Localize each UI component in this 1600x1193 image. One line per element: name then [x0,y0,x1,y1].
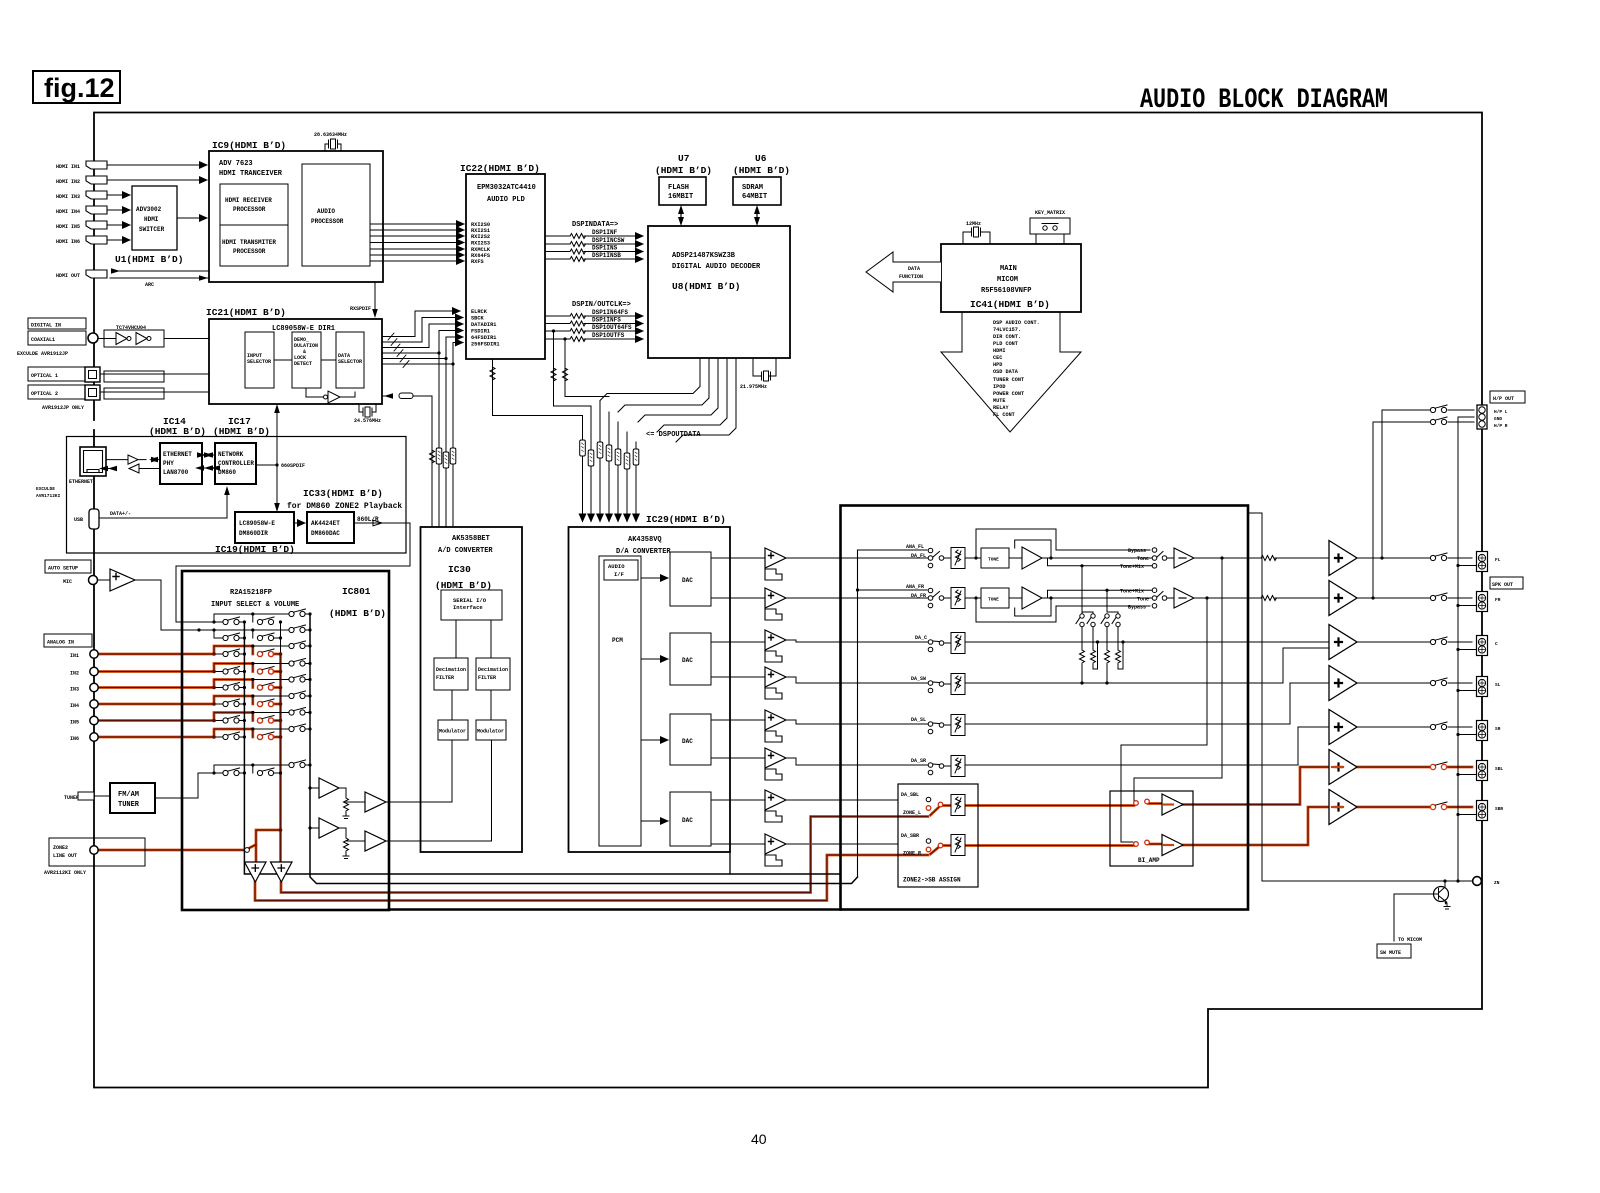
svg-text:DAC: DAC [682,738,693,745]
DAC 4 [670,792,711,846]
matrix junction dots [212,612,311,831]
DIGITAL IN label [28,318,86,329]
main amplifier section box [841,506,1249,910]
svg-text:FR: FR [1495,597,1501,603]
svg-text:DA_SBL: DA_SBL [901,792,919,798]
post amp A3 and step [765,630,786,662]
svg-text:TONE: TONE [988,597,999,603]
svg-text:FL: FL [1495,557,1501,563]
svg-text:Tone: Tone [1137,597,1149,603]
wire HDMI IN3 to U1 [107,194,130,196]
ZN terminal [1473,877,1500,886]
wire DSPINDATA group IC22 to U8 [545,221,643,262]
svg-text:AUDIO PLD: AUDIO PLD [487,196,525,204]
bead B4 [606,445,612,461]
svg-text:AK4424ET: AK4424ET [311,520,340,527]
svg-text:DM860: DM860 [218,469,236,476]
svg-text:TUNER CONT: TUNER CONT [993,377,1024,383]
svg-text:TO MICOM: TO MICOM [1398,937,1422,943]
red dash in BI_AMP tri2 [1164,844,1173,846]
svg-text:HDMI IN6: HDMI IN6 [56,239,80,245]
svg-text:HDMI TRANCEIVER: HDMI TRANCEIVER [219,170,283,178]
svg-text:DSPINDATA=>: DSPINDATA=> [572,221,618,229]
wire HDMI OUT arc loop [110,271,209,278]
svg-text:DSP1INS: DSP1INS [592,245,618,252]
ethernet buffers [99,455,160,473]
svg-text:DA_SW: DA_SW [911,676,926,682]
svg-text:64FSDIR1: 64FSDIR1 [471,335,496,341]
HDMI IN3 connector [56,191,107,200]
svg-text:H/P R: H/P R [1494,423,1508,429]
wire SR to connector [1357,726,1472,728]
svg-text:GND: GND [1494,416,1502,422]
switch FR out [1430,593,1447,601]
HDMI IN2 connector [56,176,107,185]
wire DSP1OUT64FS drop [551,329,591,406]
svg-text:AUDIO: AUDIO [608,563,625,570]
bead B2 [588,450,594,466]
crystal X1 28.63634MHz [314,132,347,151]
FL bypass loop [976,529,1150,558]
svg-text:R5F56108VNFP: R5F56108VNFP [981,287,1031,295]
row DA_SL [841,683,1330,734]
svg-text:COAXIAL1: COAXIAL1 [31,337,55,343]
svg-text:ZONE2->SB ASSIGN: ZONE2->SB ASSIGN [903,877,961,884]
H/P OUT label [1490,391,1525,403]
wire HDMI IN2 to IC9 [107,179,207,181]
svg-text:AUTO SETUP: AUTO SETUP [48,566,78,572]
svg-text:OSD DATA: OSD DATA [993,369,1019,375]
svg-text:SW MUTE: SW MUTE [1380,950,1401,956]
svg-text:DSP1INCSW: DSP1INCSW [592,237,625,244]
power amp SR [1329,710,1357,745]
bead F3 [450,448,456,464]
svg-text:HDMI IN1: HDMI IN1 [56,164,80,170]
wire U1 to IC9 [177,217,207,219]
red dash in SBL amp [1332,766,1343,768]
svg-text:ADV 7623: ADV 7623 [219,160,253,168]
svg-text:U8(HDMI B’D): U8(HDMI B’D) [672,281,740,292]
svg-text:OPTICAL 2: OPTICAL 2 [31,391,58,397]
svg-text:BI_AMP: BI_AMP [1138,857,1160,864]
post amp A1 and step [765,548,786,580]
svg-text:Modulator: Modulator [439,729,466,735]
wire IC22 bottom resistor to bus [490,359,583,416]
mix junction dots [1080,640,1124,684]
wire controller 860SPDIF right and up to IC21 [256,404,305,512]
col3 bus to ANA line [310,614,858,884]
svg-text:(HDMI B’D): (HDMI B’D) [213,426,270,437]
H/P switches [1430,405,1447,413]
svg-text:CEC: CEC [993,355,1002,361]
svg-text:MICOM: MICOM [997,276,1018,284]
svg-text:DAC: DAC [682,657,693,664]
svg-text:Tone: Tone [1137,556,1149,562]
svg-text:HDMI TRANSMITER: HDMI TRANSMITER [222,239,276,246]
connector SBL [1477,761,1504,781]
svg-text:IN5: IN5 [70,720,79,726]
bead B5 [615,449,621,465]
TUNER connector [64,792,94,801]
svg-text:IN1: IN1 [70,653,79,659]
svg-text:SERIAL I/O: SERIAL I/O [453,597,487,604]
svg-text:IC29(HDMI B’D): IC29(HDMI B’D) [646,514,726,525]
svg-text:SR: SR [1495,726,1501,732]
svg-text:256FSDIR1: 256FSDIR1 [471,342,500,348]
svg-text:Bypass: Bypass [1128,605,1146,611]
ethernet RJ45 connector [69,447,106,485]
H/P connector [1477,405,1508,429]
svg-text:28.63634MHz: 28.63634MHz [314,132,347,138]
DATA FUNCTION left arrow [866,252,941,292]
AUTO SETUP label [45,560,91,573]
svg-text:POWER CONT: POWER CONT [993,391,1024,397]
attenuator FR [951,588,965,609]
svg-text:IC21(HDMI B’D): IC21(HDMI B’D) [206,307,286,318]
post amp A5 and step [765,710,786,742]
FL mode selector [1048,548,1195,570]
svg-text:Decimation: Decimation [436,667,466,673]
wire IC801 buffer2 to modulator2 [386,740,492,841]
svg-text:DSP1INF: DSP1INF [592,229,618,236]
svg-text:DA_C: DA_C [915,635,927,641]
svg-text:DATA: DATA [908,266,920,272]
post amp A4 and step [765,667,786,699]
svg-text:PROCESSOR: PROCESSOR [233,248,266,255]
svg-text:ETHERNET: ETHERNET [69,479,93,485]
svg-text:ADV3002: ADV3002 [136,206,162,213]
svg-text:RXI2S3: RXI2S3 [471,241,490,247]
svg-text:AVR1712KI: AVR1712KI [36,493,61,499]
switch C out [1430,637,1447,645]
bead F1 [436,448,442,464]
svg-text:LINE OUT: LINE OUT [53,853,77,859]
wire 860L/R feed row1 [176,614,310,622]
SPK OUT label [1490,577,1523,589]
HDMI IN1 connector [56,161,107,170]
attenuator C [951,633,965,654]
svg-text:FILTER: FILTER [478,675,496,681]
power amp FL [1329,541,1357,576]
svg-text:SELECTOR: SELECTOR [338,359,362,365]
svg-text:DATA+/-: DATA+/- [110,511,131,517]
svg-text:TUNER: TUNER [64,795,79,801]
svg-text:SELECTOR: SELECTOR [247,359,271,365]
svg-text:Bypass: Bypass [1128,548,1146,554]
row DA_C [841,635,1330,652]
wire SL to connector [1357,682,1472,684]
attenuator SBL zone [951,795,965,816]
LC89058W-E DM860DIR [235,512,294,543]
wire DSP1OUTFS drop [563,337,610,396]
ZONE2 SB ASSIGN block [898,784,978,887]
svg-text:SPK OUT: SPK OUT [1492,582,1513,588]
svg-text:EXCULDE AVR1912JP: EXCULDE AVR1912JP [17,351,68,357]
svg-text:HDMI IN2: HDMI IN2 [56,179,80,185]
ANA bus vertical [858,550,928,877]
IN4 jack [70,700,98,709]
svg-text:Decimation: Decimation [478,667,508,673]
svg-text:ARC: ARC [145,282,154,288]
svg-text:DIGITAL IN: DIGITAL IN [31,323,61,329]
bus hatch marks [388,333,409,368]
svg-text:HDMI RECEIVER: HDMI RECEIVER [225,197,272,204]
OPTICAL 2 input [28,385,100,411]
DAC 1 [670,552,711,606]
svg-text:OPTICAL 1: OPTICAL 1 [31,373,58,379]
svg-text:TUNER: TUNER [118,801,140,809]
wire PHY to controller arrows [202,455,215,468]
svg-text:A/D CONVERTER: A/D CONVERTER [438,547,493,555]
wire FR to power amp with resistor [1194,597,1329,599]
fig.12 title box [33,71,120,103]
svg-text:DSP1OUT64FS: DSP1OUT64FS [592,324,632,331]
svg-text:HDMI OUT: HDMI OUT [56,273,80,279]
svg-text:Tone+Mix: Tone+Mix [1120,589,1144,595]
HDMI IN6 connector [56,236,107,245]
crystal X2 24.576MHz [354,404,381,424]
wire optical1 to IC21 [100,371,209,382]
svg-text:NETWORK: NETWORK [218,451,244,458]
svg-text:IN6: IN6 [70,736,79,742]
svg-text:D/A CONVERTER: D/A CONVERTER [616,548,671,556]
svg-text:HDMI: HDMI [993,348,1005,354]
svg-text:HDMI: HDMI [144,216,159,223]
IC22 AUDIO PLD [460,163,545,359]
svg-text:DSP1OUTFS: DSP1OUTFS [592,332,625,339]
post amp A7 and step [765,790,786,822]
svg-text:ZONE_R: ZONE_R [903,851,921,857]
wire H/P L tap [1382,410,1474,558]
wire FR tap to BI_AMP [1121,598,1207,842]
wire PCM to DACs [641,578,668,821]
wire DSPIN/OUTCLK group IC22 to U8 [545,301,643,342]
U6 SDRAM [733,153,790,205]
row FR input select [841,584,952,608]
transistor Q1 mute [1394,879,1450,941]
svg-text:IPOD: IPOD [993,384,1005,390]
switch SL out [1430,678,1447,686]
AK4424ET DM860DAC [307,512,354,543]
wire FL to power amp with resistor [1194,557,1329,559]
svg-text:C: C [1495,641,1498,647]
svg-text:HDMI IN5: HDMI IN5 [56,224,80,230]
wire bus IC21 to IC22 pins [382,311,463,368]
svg-text:U6: U6 [755,153,767,164]
svg-text:PROCESSOR: PROCESSOR [233,206,266,213]
IC30 A/D converter [421,527,523,852]
svg-text:DSP1IN64FS: DSP1IN64FS [592,309,628,316]
svg-text:IC9(HDMI B’D): IC9(HDMI B’D) [212,140,286,151]
wire IC801 buffer1 to modulator1 [386,740,452,802]
FR tone feedback loop [1015,598,1051,616]
wire 860L/R output [176,516,410,622]
svg-text:IC30: IC30 [448,564,471,575]
svg-text:AK4358VQ: AK4358VQ [628,536,662,544]
buffer TC74VHCU04 [98,325,164,347]
power amp SBR [1329,790,1357,825]
TONE block FL [965,547,1152,569]
svg-text:AUDIO: AUDIO [317,208,335,215]
svg-text:IC19(HDMI B’D): IC19(HDMI B’D) [215,544,295,555]
svg-text:860SPDIF: 860SPDIF [281,463,305,469]
matrix col2 switches [257,617,274,776]
connector SL [1477,677,1501,697]
row DA_SR [841,727,1330,775]
col2 upper black bus [280,622,282,654]
svg-text:21.975MHz: 21.975MHz [740,384,767,390]
SW MUTE box [1377,944,1411,958]
connector SR [1477,721,1501,741]
wire DSPOUT bundle down to IC29 with beads [583,401,637,522]
FR mode selector [1048,588,1195,611]
switch matrix rows black parts [198,630,310,773]
svg-text:H/P OUT: H/P OUT [1493,396,1514,402]
MIC input and opamp [63,569,135,591]
svg-text:DETECT: DETECT [294,361,312,367]
wire drops to IC30 with beads [432,353,453,527]
svg-text:DSPIN/OUTCLK=>: DSPIN/OUTCLK=> [572,301,631,309]
power amp C [1329,625,1357,660]
SB assign switch row1 [926,797,943,810]
svg-text:HDMI IN4: HDMI IN4 [56,209,80,215]
svg-text:RXFS: RXFS [471,259,485,265]
wire HDMI IN6 to U1 [107,239,130,241]
svg-text:IN3: IN3 [70,687,79,693]
wire FL tap to BI_AMP [1134,558,1222,801]
svg-text:KEY_MATRIX: KEY_MATRIX [1035,210,1065,216]
post amp A8 and step [765,834,786,866]
connector FR [1477,592,1501,612]
svg-text:DM860DAC: DM860DAC [311,530,340,537]
svg-text:FM/AM: FM/AM [118,791,139,799]
svg-text:for DM860 ZONE2 Playback: for DM860 ZONE2 Playback [287,502,402,511]
svg-text:SWITCER: SWITCER [139,226,165,233]
TONE block FR [965,587,1152,609]
svg-text:PLD CONT: PLD CONT [993,341,1018,347]
svg-text:LAN8700: LAN8700 [163,469,189,476]
svg-text:FLASH: FLASH [668,184,689,192]
svg-text:IN2: IN2 [70,671,79,677]
HDMI OUT connector [56,270,107,279]
DAC 3 [670,714,711,765]
svg-text:DA_SL: DA_SL [911,717,926,723]
wire H/P R tap [1373,422,1474,598]
svg-text:ZONE2: ZONE2 [53,845,68,851]
junction dots on IC21-IC22 bus [437,351,440,354]
svg-text:IC801: IC801 [342,586,371,597]
attenuator SL [951,715,965,736]
KEY MATRIX [1030,210,1070,244]
svg-text:(HDMI B’D): (HDMI B’D) [733,165,790,176]
IC19 network block outline [67,437,407,554]
red dash in BI_AMP tri1 [1164,803,1173,805]
svg-text:Modulator: Modulator [477,729,504,735]
connector C [1477,636,1499,656]
BI_AMP block [1110,791,1193,866]
DAC 2 [670,633,711,685]
USB connector [74,509,131,529]
ETHERNET PHY LAN8700 [160,443,202,484]
HDMI switcher U1 ADV3002 [115,186,183,265]
switch FL out [1430,553,1447,561]
svg-text:HPD: HPD [993,362,1002,368]
wire HDMI IN1 to IC9 [107,164,207,166]
red dash in SBR amp [1332,806,1343,808]
svg-text:(HDMI B’D): (HDMI B’D) [435,580,492,591]
wire IC9 audio bus to IC22 (7 lines) [370,224,464,261]
wire U7 to U8 double arrow [680,209,682,223]
svg-text:SBL: SBL [1495,766,1503,772]
wire FL to connector [1357,557,1472,559]
wire HDMI IN5 to U1 [107,224,130,226]
wire IC9 RXSPDIF down to IC21 [350,282,378,318]
svg-text:INPUT SELECT & VOLUME: INPUT SELECT & VOLUME [211,601,299,609]
attenuator SBR zone [951,835,965,856]
FR bypass loop [976,598,1150,622]
svg-text:IN4: IN4 [70,703,79,709]
svg-text:DIR CONT.: DIR CONT. [993,334,1021,340]
col1 bus and lower bus line [244,622,840,874]
svg-text:12MHz: 12MHz [966,221,981,227]
svg-text:ANALOG IN: ANALOG IN [47,640,74,646]
connector FL [1477,552,1501,572]
FL tone feedback loop [1015,540,1051,558]
wire HDMI IN4 to U1 [107,209,130,211]
svg-text:DAC: DAC [682,817,693,824]
ZONE2 LINE OUT [44,838,145,876]
row FL input select [841,544,952,568]
svg-text:MIC: MIC [63,579,72,585]
IC801 buffer chain 1 [310,778,386,819]
svg-text:R2A15218FP: R2A15218FP [230,589,272,597]
attenuator SW [951,674,965,695]
switch SBR out red [1430,802,1447,810]
wire amp outputs into main amp box [786,558,898,844]
power amp SBL [1329,750,1357,785]
zone L buffer triangle [245,862,267,882]
matrix col1 switches [223,617,240,776]
wire IC29 corner drop [729,852,731,874]
svg-text:74LVC157.: 74LVC157. [993,327,1021,333]
svg-text:fig.12: fig.12 [44,73,115,103]
svg-text:EPM3032ATC4410: EPM3032ATC4410 [477,184,536,192]
wire GND return bus [1458,417,1474,881]
svg-text:(HDMI B’D): (HDMI B’D) [655,165,712,176]
outer border frame [94,113,1482,1088]
svg-text:PCM: PCM [612,637,623,644]
IN6 jack [70,733,98,742]
svg-text:USB: USB [74,517,83,523]
svg-text:SBCK: SBCK [471,316,485,322]
IC9 HDMI transceiver block [209,140,383,282]
COAXIAL1 input [17,331,98,357]
svg-text:DA_SR: DA_SR [911,758,926,764]
svg-text:PROCESSOR: PROCESSOR [311,218,344,225]
bead F2 [443,452,449,468]
matrix col3 switches [289,609,306,768]
bead B1 [580,440,586,456]
svg-text:EXCULDE: EXCULDE [36,486,55,492]
svg-text:DSP1INSB: DSP1INSB [592,252,621,259]
svg-text:ELRCK: ELRCK [471,309,488,315]
wire MIC to matrix [135,580,289,630]
IN5 jack [70,716,98,725]
mix switches [1076,614,1120,627]
IC21 DIR block [206,307,382,404]
bead B3 [597,442,603,458]
svg-text:U1(HDMI B’D): U1(HDMI B’D) [115,254,183,265]
